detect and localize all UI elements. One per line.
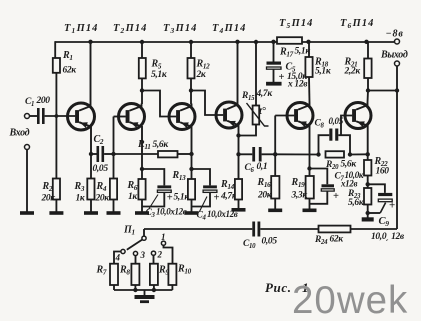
transistor T5 collector lead	[298, 103, 309, 110]
svg-text:2к: 2к	[196, 70, 207, 80]
junction dot C5 on bus	[271, 40, 275, 44]
transistor T4 emitter arrow	[228, 121, 236, 127]
svg-text:Т1П14: Т1П14	[64, 23, 98, 35]
junction dot R21 on bus	[364, 40, 368, 44]
svg-text:1к: 1к	[128, 192, 138, 202]
resistor R12 (2k) top lead	[190, 42, 192, 58]
transistor T4 base bar	[223, 109, 227, 122]
wire contact 3 to R8	[135, 256, 137, 264]
wire R21 bottom to T6 collector	[367, 78, 369, 91]
ground bar under R4	[107, 211, 121, 215]
capacitor C4 (electrolytic) plates	[203, 185, 217, 188]
ground bar under R6	[135, 211, 149, 215]
wire R2 to ground	[55, 200, 57, 213]
wire R1 bottom to base node	[55, 73, 57, 116]
junction dot T3 collector node	[189, 88, 193, 92]
wire C8 right drop	[338, 135, 350, 154]
output terminal	[395, 61, 400, 66]
resistor R2 (20k)	[53, 179, 60, 200]
wire T2 emitter down to R6	[141, 152, 143, 179]
thermistor R15 body	[253, 106, 260, 125]
wire C9 top tap	[368, 184, 385, 193]
leader line C3	[149, 195, 159, 210]
wire R11 right lead to T3 emitter node	[178, 153, 192, 155]
wire T5 base node to C8/R20 node	[275, 153, 318, 155]
svg-text:+: +	[389, 200, 395, 212]
wire C6 right lead to T5 base node	[262, 153, 276, 155]
wire C2 to T2 base node	[104, 153, 113, 155]
capacitor C5 (electrolytic) lead	[273, 42, 275, 62]
transistor T4 collector lead	[227, 42, 237, 109]
wire input bottom terminal to ground	[26, 150, 28, 212]
wire contact 2 to R9	[153, 255, 155, 263]
wire C7 bottom to R19 bottom	[310, 191, 328, 204]
bottom rail of switch resistors	[114, 289, 172, 291]
svg-text:+: +	[214, 193, 220, 204]
svg-text:4: 4	[115, 253, 121, 263]
resistor R13 (5.1k)	[188, 179, 195, 200]
svg-text:Т4П14: Т4П14	[212, 23, 246, 35]
wire input to C1	[30, 115, 38, 117]
junction dot C8 right / R20 right	[348, 152, 352, 156]
junction dot R5 on bus	[140, 40, 144, 44]
resistor R1 (62k)	[53, 58, 60, 73]
svg-text:Рис.: Рис.	[265, 280, 292, 295]
resistor R5 (5.1k) top lead	[141, 42, 143, 58]
capacitor C2 plates	[97, 146, 100, 162]
svg-text:10,0х12в: 10,0х12в	[156, 206, 187, 216]
wire C9 bottom diagonal lead	[380, 203, 385, 213]
wire R22 bottom to R23 top	[367, 176, 369, 189]
svg-text:3: 3	[140, 250, 146, 260]
svg-text:0,05: 0,05	[262, 237, 278, 247]
wire pivot up to rail	[143, 229, 145, 236]
resistor R11 (5.6k) left lead	[114, 153, 159, 155]
transistor T1 collector lead	[79, 42, 90, 111]
wire base node down to R2	[55, 116, 57, 179]
svg-text:−8в: −8в	[386, 29, 404, 40]
transistor T1 emitter lead	[79, 122, 91, 154]
wire R6 to ground	[141, 200, 143, 213]
svg-text:4,7к: 4,7к	[256, 89, 274, 99]
wire T1 emitter to C2	[91, 153, 97, 155]
junction dot base node T1	[55, 114, 59, 118]
wire switch pivot to C10	[144, 228, 252, 230]
wire C3 top tap	[142, 169, 164, 185]
svg-text:1: 1	[161, 232, 165, 242]
resistor R18 (5.1k)	[305, 57, 312, 77]
transistor T3 collector lead	[180, 104, 191, 111]
resistor R8	[131, 264, 139, 285]
wire R15 bottom to T4 emitter node	[239, 125, 257, 136]
transistor T1 emitter arrow	[80, 122, 88, 128]
svg-text:Т5П14: Т5П14	[279, 18, 313, 30]
wire C9 bottom to R23 bottom	[368, 212, 381, 214]
resistor R16 (20k)	[271, 176, 279, 199]
wire C7 top tap	[310, 169, 328, 185]
svg-text:62к: 62к	[63, 66, 78, 76]
svg-text:5,6к: 5,6к	[341, 160, 358, 170]
resistor R21 (2.2k)	[364, 59, 371, 79]
svg-text:0,1: 0,1	[257, 162, 268, 172]
junction dot R15 tap on T4 emitter line	[236, 133, 240, 137]
junction dot on T6 emitter line	[366, 152, 370, 156]
resistor R4 (20k)	[110, 179, 117, 200]
transistor T3 emitter arrow	[181, 122, 189, 128]
junction dot T6 collector node	[366, 88, 370, 92]
terminal -8V	[395, 39, 400, 44]
svg-text:62к: 62к	[330, 235, 345, 245]
transistor T4 body	[216, 102, 242, 128]
wire C4 top tap	[192, 169, 211, 185]
switch P1 arm	[127, 240, 142, 250]
wire R20 right to T6 emitter node	[350, 153, 368, 155]
resistor R22 (160)	[364, 160, 371, 176]
leader line C4	[200, 197, 208, 212]
resistor R23 (5.6k)	[364, 188, 371, 205]
ground bar under R16	[268, 209, 282, 213]
resistor R3 (1k)	[87, 179, 94, 200]
wire rail to ground	[144, 290, 146, 296]
resistor R5 (5.1k)	[139, 58, 146, 78]
resistor R7	[110, 264, 118, 285]
resistor R14 (4.7k)	[235, 179, 242, 200]
wire R14 to ground	[238, 200, 240, 209]
thermistor R15 (4.7k) top lead	[255, 42, 257, 106]
svg-text:20к: 20к	[95, 194, 111, 204]
junction dot R23/C9 bottom	[366, 211, 370, 215]
input terminal (bottom)	[25, 145, 30, 150]
svg-text:х 12в: х 12в	[287, 80, 308, 90]
svg-text:0,05: 0,05	[93, 164, 109, 174]
wire base node down to R4	[113, 154, 115, 179]
wire R5 bottom to T2 collector node	[141, 78, 143, 104]
wire C8 left drop	[319, 135, 330, 154]
resistor R21 (2.2k) top lead	[367, 42, 369, 59]
capacitor C1 plates	[37, 108, 40, 124]
wire R7 bottom rail	[113, 285, 115, 290]
wire collector node to output vertical	[368, 90, 397, 92]
transistor T2 emitter arrow	[131, 122, 139, 128]
junction dot T5 base node	[273, 152, 277, 156]
transistor T1 base bar	[75, 110, 79, 123]
transistor T3 emitter lead	[180, 122, 191, 152]
junction dot C8 left / R20 left	[316, 152, 320, 156]
resistor R9	[150, 264, 158, 285]
junction dot R18 on bus	[306, 40, 310, 44]
wire T5 base node up	[274, 116, 276, 155]
wire C4 bottom to R13 bottom	[192, 192, 211, 206]
transistor T2 body	[119, 104, 145, 130]
wire into T5 base bar	[275, 115, 294, 117]
wire base node up to T2 base	[113, 117, 115, 155]
wire R18 bottom to T5 collector	[308, 77, 311, 103]
wire R16 to ground	[274, 199, 276, 210]
transistor T4 emitter lead	[227, 121, 238, 179]
wire C6 left lead	[239, 153, 253, 155]
junction dot C6 tap on T4 emitter line	[236, 152, 240, 156]
transistor T5 body	[287, 103, 313, 129]
resistor R1 (62k) top lead	[54, 41, 56, 58]
junction dot T2 emitter / C3 tap	[140, 167, 144, 171]
wire contact 1 to R10	[164, 245, 173, 263]
wire R9 bottom	[153, 285, 155, 290]
transistor T5 base bar	[294, 109, 298, 122]
svg-text:20к: 20к	[41, 194, 57, 204]
wire contact 4 to R7	[114, 252, 121, 264]
switch contact 2	[151, 251, 155, 255]
svg-text:х12в: х12в	[340, 179, 357, 189]
junction dot R11 on T3 emitter line	[189, 152, 193, 156]
wire T6 base drop	[341, 116, 352, 136]
wire R3 to ground	[90, 200, 92, 213]
wire C1 to T1 base	[45, 115, 76, 117]
resistor R17 (5.1k) in series with bus	[277, 37, 302, 44]
wire R10 bottom	[171, 285, 173, 290]
power bus -8V (left segment)	[55, 41, 277, 43]
svg-text:3,3к: 3,3к	[291, 191, 309, 201]
junction dot R12 on bus	[189, 40, 193, 44]
junction dot R15 on bus	[254, 40, 258, 44]
wire T5 base node down to R16	[274, 154, 276, 176]
transistor T2 collector lead	[130, 104, 142, 111]
switch contact 4	[121, 249, 125, 253]
transistor T2 emitter lead	[130, 122, 142, 152]
wire R23 to ground	[367, 205, 369, 218]
svg-text:20к: 20к	[257, 191, 273, 201]
power bus -8V (right segment)	[302, 41, 395, 43]
junction dot T4 collector on bus	[235, 40, 239, 44]
junction dot R22/R23/C9	[366, 182, 370, 186]
junction dot R8 on rail	[133, 288, 137, 292]
junction dot T2 collector node	[140, 88, 144, 92]
wire T1 emitter down to R3	[90, 152, 92, 179]
wire R8 bottom	[134, 285, 136, 290]
junction dot C4 tap	[189, 167, 193, 171]
junction dot T1 collector on bus	[88, 40, 92, 44]
wire C10 to R24	[260, 228, 318, 230]
switch contact 3	[133, 251, 137, 255]
capacitor C5 plates	[267, 62, 282, 65]
junction dot C7 tap on T5 emitter line	[307, 166, 311, 170]
wire T5 emitter line down across to R19	[309, 152, 311, 176]
capacitor C10 plates	[252, 222, 255, 237]
svg-text:2: 2	[157, 250, 163, 260]
thermistor R15 diagonal	[247, 103, 269, 126]
wire T2 collector to T3 base (direct coupling)	[142, 91, 176, 117]
wire T6 emitter to R22	[367, 154, 369, 160]
wire R19 to ground	[309, 199, 311, 210]
resistor R18 (5.1k) top lead	[308, 42, 310, 57]
input terminal (top)	[25, 114, 30, 119]
svg-text:10,0ˏ 12в: 10,0ˏ 12в	[371, 232, 405, 242]
wire R24 to output vertical	[351, 228, 398, 230]
wire into T2 base bar	[114, 116, 126, 118]
ground bar under R19	[303, 209, 317, 213]
svg-text:Вход: Вход	[9, 128, 30, 139]
svg-text:160: 160	[376, 167, 390, 177]
transistor T3 base bar	[176, 110, 180, 123]
wire T3 collector to T4 base (direct coupling)	[191, 91, 223, 116]
ground bar 2 under switch	[140, 300, 149, 303]
wire R13 to ground	[191, 200, 193, 213]
transistor T1 body	[68, 103, 95, 130]
svg-text:Выход: Выход	[380, 50, 408, 61]
capacitor C3 (electrolytic) plates	[157, 185, 171, 188]
svg-text:Т2П14: Т2П14	[113, 23, 147, 35]
ground bar under R14	[232, 208, 246, 212]
transistor T2 base bar	[126, 110, 130, 123]
svg-text:5,1к: 5,1к	[315, 67, 332, 77]
resistor R24 (62k)	[319, 226, 351, 233]
wire T6 collector node down	[367, 91, 370, 103]
wire C3 bottom to R6 bottom	[142, 192, 164, 206]
resistor R12 (2k)	[188, 58, 195, 78]
svg-text:+: +	[279, 72, 285, 83]
wire output terminal down to bottom rail	[396, 66, 398, 229]
resistor R10	[168, 264, 176, 285]
capacitor C7 (electrolytic) plates	[322, 184, 335, 187]
transistor T6 emitter lead	[356, 121, 368, 154]
ground bar under C5	[266, 82, 282, 86]
transistor T6 collector lead	[356, 103, 367, 110]
transistor T3 body	[169, 104, 195, 130]
svg-text:1к: 1к	[76, 194, 86, 204]
wire T3 emitter down to R13	[191, 152, 193, 179]
resistor R19 (3.3k)	[306, 176, 314, 199]
junction dot R9 on rail	[152, 288, 156, 292]
ground bar at input	[20, 211, 34, 215]
ground bar under R3	[84, 211, 98, 215]
wire R12 bottom to T3 collector node	[190, 78, 192, 104]
ground bar under R13	[185, 211, 199, 215]
capacitor C8 plates	[329, 129, 332, 141]
junction dot T1 emitter / C2	[89, 152, 93, 156]
resistor R20 (5.6k)	[326, 151, 345, 157]
svg-text:Т3П14: Т3П14	[163, 23, 197, 35]
svg-text:+: +	[167, 193, 173, 204]
junction dot T2 base node	[111, 152, 115, 156]
svg-text:+: +	[333, 191, 339, 202]
svg-text:Т6П14: Т6П14	[340, 18, 374, 30]
resistor R6 (1k)	[138, 179, 145, 200]
ground bar under switch	[135, 295, 155, 299]
switch contact 1	[161, 241, 165, 245]
svg-text:5,1к: 5,1к	[151, 70, 168, 80]
capacitor C9 (electrolytic) plates	[378, 193, 392, 196]
transistor T5 emitter lead	[298, 121, 309, 152]
resistor R11 (5.6k)	[158, 151, 178, 157]
transistor T6 emitter arrow	[357, 121, 365, 127]
transistor T5 emitter arrow	[299, 121, 307, 127]
svg-text:2,2к: 2,2к	[344, 67, 362, 77]
svg-text:20wek: 20wek	[292, 279, 408, 321]
svg-text:200: 200	[36, 96, 51, 106]
capacitor C5 stem	[273, 69, 275, 82]
ground bar under R2	[49, 211, 63, 215]
svg-text:5,6к: 5,6к	[153, 140, 170, 150]
junction dot output/collector line	[395, 88, 399, 92]
transistor T6 base bar	[352, 109, 356, 122]
capacitor C6 plates	[252, 147, 255, 162]
wire R4 to ground	[113, 200, 115, 213]
transistor T6 body	[345, 103, 371, 129]
svg-text:5,6к: 5,6к	[348, 198, 365, 208]
switch P1 pivot	[142, 236, 146, 240]
ground bar under R23	[362, 217, 374, 221]
